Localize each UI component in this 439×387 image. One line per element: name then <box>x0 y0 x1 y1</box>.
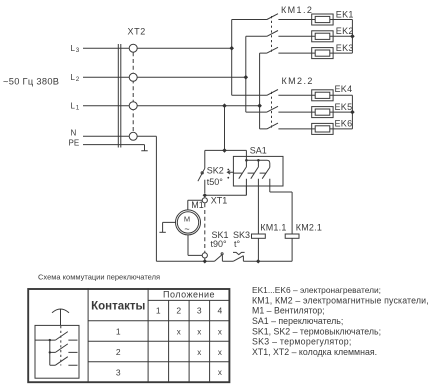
wire phase bus v1 <box>231 20 233 96</box>
table x marks row3 <box>218 368 222 377</box>
SK1 label <box>212 230 229 240</box>
terminal block XT1 dashed link <box>204 203 206 252</box>
KM1.1 label <box>260 222 286 232</box>
heater EK5 <box>312 107 353 118</box>
node junction XT1 top <box>203 193 207 197</box>
svg-text:КМ1.2: КМ1.2 <box>281 5 313 15</box>
svg-text:x: x <box>218 348 222 357</box>
svg-text:4: 4 <box>218 306 223 316</box>
contact KM1.2 pole1 <box>232 14 312 20</box>
table row labels <box>116 327 121 378</box>
terminal XT1 circle 2 <box>202 253 207 258</box>
motor M glyph <box>184 214 190 234</box>
node junction control tap <box>222 148 227 153</box>
svg-text:SA1: SA1 <box>250 145 267 155</box>
motor M1 <box>176 210 201 235</box>
SA1 contact 1 <box>239 160 247 195</box>
table vertical lines <box>88 288 210 383</box>
SA1 contact 2 <box>251 160 259 234</box>
wire motor bottom lead <box>188 235 202 256</box>
svg-text:3: 3 <box>76 47 80 54</box>
SK3 value t <box>234 239 241 249</box>
heater EK5 label <box>335 102 353 112</box>
svg-text:x: x <box>218 327 222 336</box>
SK2 value t50 <box>207 177 224 187</box>
svg-text:t50°: t50° <box>207 177 224 187</box>
wire L2 <box>83 76 246 78</box>
node junction L1-tap <box>222 103 227 108</box>
mini switch feed wire <box>35 339 55 341</box>
svg-text:XT2: XT2 <box>128 27 146 37</box>
legend line5 SK1 SK2 <box>252 326 381 336</box>
wire control feed horizontal <box>205 150 247 160</box>
wire XT1 bottom stub <box>204 258 206 261</box>
wire phase bus v3 <box>259 53 261 129</box>
svg-text:1: 1 <box>76 105 80 112</box>
SA1 label <box>250 145 267 155</box>
table horizontal lines <box>88 300 229 361</box>
svg-text:1: 1 <box>116 327 121 337</box>
svg-text:x: x <box>197 348 201 357</box>
SK3 label <box>233 230 250 240</box>
svg-text:EK1: EK1 <box>336 10 354 20</box>
mini switch bus dot2 <box>49 351 51 353</box>
mechanical link KM1.2 <box>271 16 273 53</box>
SK1 pivot circle <box>221 253 223 255</box>
svg-text:М1 – Вентилятор;: М1 – Вентилятор; <box>252 306 325 316</box>
contact KM1.2 pole3 <box>260 47 312 53</box>
mini switch contact 2 <box>50 344 78 353</box>
SA1 top bus <box>246 160 269 167</box>
mini switch left bus <box>49 340 51 365</box>
svg-text:t°: t° <box>234 239 241 249</box>
heater EK4 label <box>335 84 353 94</box>
heater EK2 label <box>336 26 354 36</box>
svg-text:L: L <box>71 44 76 53</box>
svg-text:XT1: XT1 <box>211 195 228 205</box>
svg-text:3: 3 <box>197 306 202 316</box>
svg-text:EK2: EK2 <box>336 26 354 36</box>
svg-text:2: 2 <box>76 76 80 83</box>
node PE label <box>69 138 80 147</box>
heater EK6 <box>312 123 353 134</box>
wire control tap from L1 <box>224 106 226 151</box>
coil KM2.1 <box>285 234 299 238</box>
SK2 label <box>207 166 224 176</box>
svg-text:М1: М1 <box>191 200 204 210</box>
legend line3 M1 <box>252 306 325 316</box>
svg-text:КМ1.1: КМ1.1 <box>260 222 286 232</box>
heater EK6 label <box>335 119 353 129</box>
wire N drop to control circuit <box>155 136 157 261</box>
svg-text:Положение: Положение <box>163 290 215 300</box>
svg-text:M: M <box>184 214 190 223</box>
terminal block XT2 label <box>128 27 146 37</box>
contactor KM1.2 label <box>281 5 313 15</box>
mini switch box <box>35 325 79 378</box>
node junction L3-v1 <box>229 46 234 51</box>
wire motor ground lead <box>163 222 176 232</box>
legend line2 KM <box>252 295 429 305</box>
wire L1 <box>83 105 260 107</box>
table header Контакты <box>91 301 145 313</box>
legend line1 EK <box>252 285 381 295</box>
contact KM1.2 pole2 <box>246 31 312 37</box>
table title <box>38 273 160 282</box>
contact KM2.2 pole3 <box>260 123 312 129</box>
svg-text:EK4: EK4 <box>335 84 353 94</box>
svg-text:Схема коммутации переключателя: Схема коммутации переключателя <box>38 273 160 282</box>
legend line6 SK3 <box>252 337 352 347</box>
node junction bottom XT1 <box>203 259 207 263</box>
node N label <box>71 129 77 138</box>
thermostat SK3 <box>233 256 258 262</box>
coil KM1.1 bottom pin <box>257 238 259 261</box>
XT2 terminal circle L2 <box>129 73 137 81</box>
svg-text:SK2: SK2 <box>207 166 224 176</box>
svg-text:L: L <box>71 73 76 82</box>
mini switch mechanical link <box>60 326 62 366</box>
node junction EK bus2 <box>350 110 355 115</box>
table outer border <box>28 289 229 382</box>
SK3 thermal mark <box>233 252 245 254</box>
cable double line <box>118 44 121 148</box>
svg-text:EK1...EK6 – электронагреватели: EK1...EK6 – электронагреватели; <box>252 285 381 295</box>
node SA1 bus dot1 <box>245 159 248 162</box>
SK2 pivot circle <box>201 172 203 174</box>
svg-text:PE: PE <box>69 138 80 147</box>
svg-text:EK3: EK3 <box>336 43 354 53</box>
ground PE <box>141 145 147 151</box>
node junction EK bus1 <box>350 34 355 39</box>
table x marks row2 <box>197 348 222 357</box>
svg-text:x: x <box>218 368 222 377</box>
svg-text:SA1 – переключатель;: SA1 – переключатель; <box>252 316 343 326</box>
SA1 contact 3 <box>262 167 292 234</box>
XT1 label <box>211 195 228 205</box>
XT2 terminal circle N <box>129 132 137 140</box>
wire SA1 pin1 to XT1 <box>205 186 247 195</box>
terminal block XT2 dashed link <box>132 52 134 132</box>
svg-text:ХТ1, ХТ2 – колодка клеммная.: ХТ1, ХТ2 – колодка клеммная. <box>252 347 377 357</box>
heater EK1 label <box>336 10 354 20</box>
wire phase bus v2 <box>245 36 247 112</box>
heater EK1 <box>312 14 353 25</box>
svg-text:t90°: t90° <box>211 239 228 249</box>
terminal XT1 circle 1 <box>202 198 207 203</box>
wire bottom neutral left <box>156 260 214 262</box>
wire N <box>83 135 156 137</box>
table x marks row1 <box>177 327 222 336</box>
SA1 handle arrow <box>227 169 233 179</box>
KM2.1 label <box>296 222 322 232</box>
node junction L2-v2 <box>244 75 249 80</box>
svg-text:L: L <box>71 102 76 111</box>
svg-text:EK6: EK6 <box>335 119 353 129</box>
wire PE <box>83 144 145 146</box>
wire motor top lead <box>188 200 202 210</box>
svg-text:3: 3 <box>116 367 121 377</box>
node SA1 bus dot2 <box>257 159 260 162</box>
heater EK3 label <box>336 43 354 53</box>
svg-text:N: N <box>71 129 77 138</box>
label ~50 Гц 380В <box>3 77 59 87</box>
thermal switch SK1 <box>215 255 234 262</box>
svg-text:~50 Гц 380В: ~50 Гц 380В <box>3 77 59 87</box>
node L1 label <box>71 102 80 112</box>
legend line4 SA1 <box>252 316 343 326</box>
svg-text:x: x <box>197 327 201 336</box>
node junction coils <box>256 259 260 263</box>
contact KM2.2 pole1 <box>232 90 312 96</box>
svg-text:SK3 – терморегулятор;: SK3 – терморегулятор; <box>252 337 352 347</box>
SK1 value t90 <box>211 239 228 249</box>
svg-text:~: ~ <box>184 224 189 234</box>
contact KM2.2 pole2 <box>246 106 312 112</box>
selector switch SA1 box <box>233 156 283 186</box>
mini switch handle <box>52 309 69 325</box>
heater EK3 <box>312 48 353 59</box>
ground motor <box>159 231 165 233</box>
node L3 label <box>71 44 80 54</box>
svg-text:SK1, SK2 – термовыключатель;: SK1, SK2 – термовыключатель; <box>252 326 381 336</box>
svg-text:КМ1, КМ2 – электромагнитные пу: КМ1, КМ2 – электромагнитные пускатели, <box>252 295 429 305</box>
table header position numbers <box>156 306 223 316</box>
coil KM1.1 <box>252 234 266 238</box>
XT2 terminal circle L1 <box>129 102 137 110</box>
motor M1 label <box>191 200 204 210</box>
mini switch contact 1 <box>55 332 77 341</box>
wire bottom neutral right <box>258 238 292 261</box>
svg-text:КМ2.1: КМ2.1 <box>296 222 322 232</box>
table header Положение <box>163 290 215 300</box>
XT2 terminal circle L3 <box>129 44 137 52</box>
node junction L1-v3 <box>257 103 262 108</box>
heater EK2 <box>312 31 353 42</box>
svg-text:КМ2.2: КМ2.2 <box>282 76 314 86</box>
svg-text:2: 2 <box>116 347 121 357</box>
svg-text:2: 2 <box>176 306 181 316</box>
mechanical link KM2.2 <box>271 92 273 129</box>
mini switch bus dot1 <box>49 339 51 341</box>
wire star bus EK1-EK3 <box>351 20 353 54</box>
svg-text:Контакты: Контакты <box>91 301 145 313</box>
svg-text:1: 1 <box>156 306 161 316</box>
svg-text:EK5: EK5 <box>335 102 353 112</box>
heater EK4 <box>312 90 353 101</box>
node L2 label <box>71 73 80 83</box>
SA1 position ticks <box>233 172 266 174</box>
mini switch contact 3 <box>50 357 78 366</box>
legend line7 XT <box>252 347 377 357</box>
thermal switch SK2 <box>198 150 205 193</box>
wire star bus EK4-EK6 <box>351 95 353 129</box>
svg-text:x: x <box>177 327 181 336</box>
wire L3 <box>83 47 232 49</box>
contactor KM2.2 label <box>282 76 314 86</box>
